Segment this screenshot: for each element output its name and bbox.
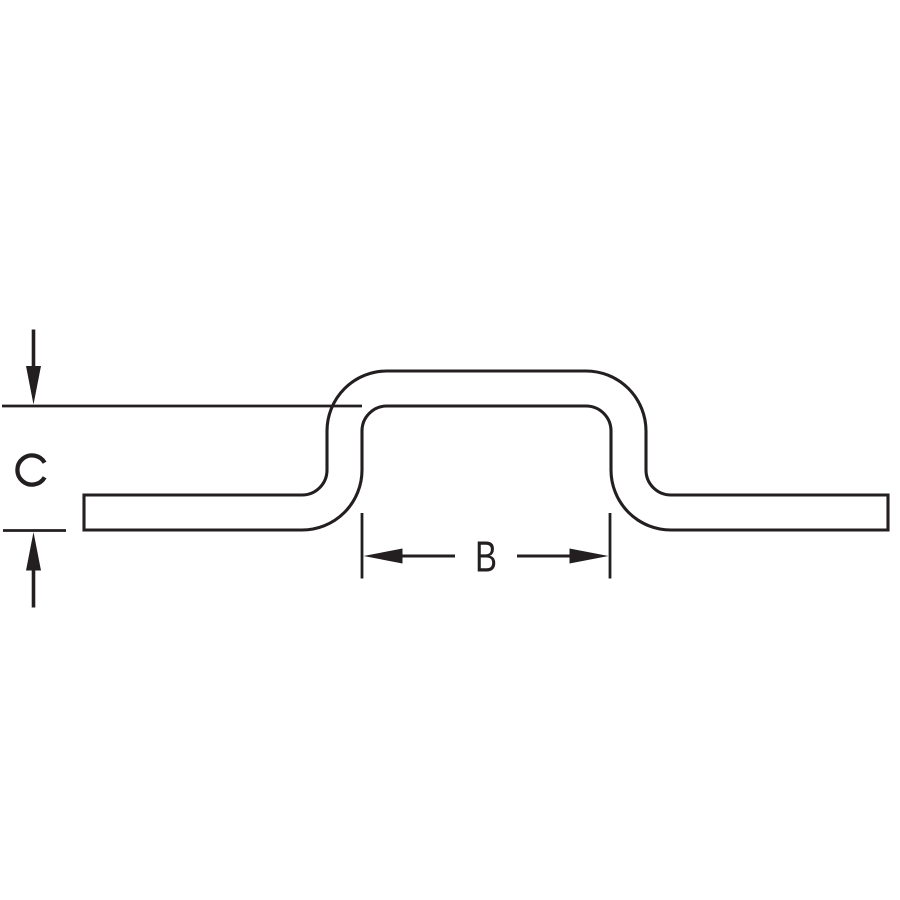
dimension C lower arrowhead (points up) xyxy=(26,532,41,571)
label C xyxy=(17,455,44,484)
svg-text:B: B xyxy=(475,533,497,582)
dimension C upper arrow shaft xyxy=(32,330,36,370)
extension line: B left xyxy=(361,513,364,579)
dimension B right arrowhead (points right) xyxy=(570,549,609,564)
strap profile outline xyxy=(84,371,888,530)
extension line: B right xyxy=(609,513,612,579)
dimension C upper arrowhead (points down) xyxy=(26,366,41,405)
dimension C lower arrow shaft xyxy=(32,568,36,608)
extension tick: C bottom datum at strap underside level xyxy=(3,529,66,532)
dimension B left arrowhead (points left) xyxy=(364,549,403,564)
dimension B right arrow shaft xyxy=(517,555,571,558)
extension line: C top datum at inner hat surface level xyxy=(2,405,362,408)
dimension B left arrow shaft xyxy=(401,555,455,558)
